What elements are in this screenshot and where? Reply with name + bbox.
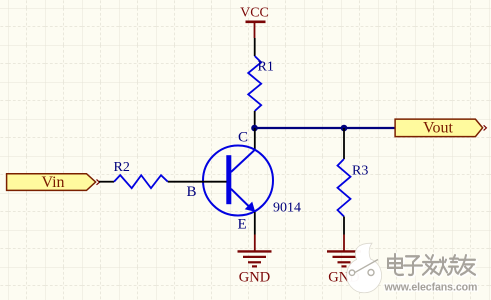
watermark text www.elecfans.com <box>384 282 478 294</box>
junction dot at R3 branch <box>341 125 348 132</box>
svg-text:E: E <box>238 217 247 233</box>
svg-text:R1: R1 <box>258 60 274 75</box>
wire R3 branch vertical <box>343 128 345 159</box>
resistor R2 <box>114 160 168 188</box>
wire node C to Vout (horizontal) <box>255 127 396 129</box>
ground GND (left) <box>238 235 272 286</box>
transistor Q1 9014 <box>203 146 301 216</box>
svg-text:R2: R2 <box>114 160 130 175</box>
svg-text:VCC: VCC <box>240 6 269 21</box>
resistor R1 <box>248 56 274 111</box>
port Vout <box>395 119 486 137</box>
port Vin <box>7 174 100 191</box>
wire Vin to R2 <box>99 181 114 183</box>
wire emitter to GND <box>254 212 256 235</box>
svg-text:Vin: Vin <box>41 174 64 191</box>
node C junction dot <box>251 125 258 132</box>
svg-text:GND: GND <box>239 270 270 286</box>
watermark logo <box>347 243 382 293</box>
ground GND (right) <box>327 235 361 286</box>
watermark text 电子发烧友 <box>388 254 476 276</box>
wire VCC to R1 <box>254 38 256 56</box>
power symbol VCC <box>240 6 269 39</box>
svg-text:R3: R3 <box>352 164 368 179</box>
svg-text:B: B <box>187 184 197 200</box>
wire R1 to node C <box>254 111 256 128</box>
svg-text:Vout: Vout <box>423 120 453 137</box>
wire R2 to base <box>168 181 227 183</box>
resistor R3 <box>338 159 369 217</box>
svg-text:C: C <box>238 130 248 146</box>
svg-text:9014: 9014 <box>273 201 301 216</box>
svg-text:www.elecfans.com: www.elecfans.com <box>384 282 478 294</box>
wire R3 to GND <box>343 217 345 235</box>
wire collector pin <box>254 128 256 150</box>
